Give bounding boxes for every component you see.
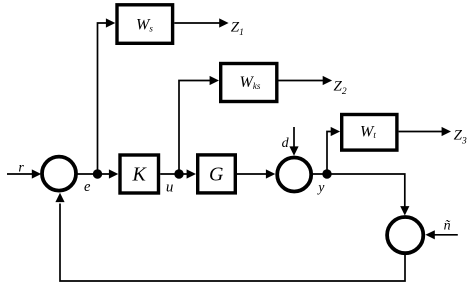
wire r input [7,169,41,178]
wire n input [425,230,457,239]
summing junction S2 [277,158,311,192]
summing junction S1 [42,157,76,191]
block Wt [342,115,397,151]
wire Ws to Z1 [174,18,228,27]
wire d input [289,127,298,156]
node junction dot y [322,169,331,178]
wire Wt to Z3 [399,127,451,136]
wire u: K to G [160,169,196,178]
block K [120,155,159,193]
node junction dot e [93,169,102,178]
wire y: S2 to S3 [313,174,410,216]
wire branch e to Ws [98,18,116,174]
svg-text:r: r [18,160,24,175]
wire Wks to Z2 [279,76,333,85]
svg-text:e: e [84,179,91,195]
svg-text:K: K [132,164,148,186]
svg-text:ñ: ñ [444,219,451,234]
wire feedback S3 to S1 [55,193,405,281]
wire branch y to Wt [327,127,340,174]
svg-text:G: G [209,164,224,186]
summing junction S3 [387,217,423,253]
block Wks [221,64,277,102]
svg-text:d: d [282,136,290,151]
block Ws [117,5,173,44]
wire branch u to Wks [179,76,219,174]
svg-text:u: u [166,179,174,195]
node junction dot u [174,169,183,178]
svg-text:y: y [316,180,324,195]
wire G to S2 [237,169,275,178]
wire e: S1 to K [77,169,118,178]
block G [198,155,236,193]
